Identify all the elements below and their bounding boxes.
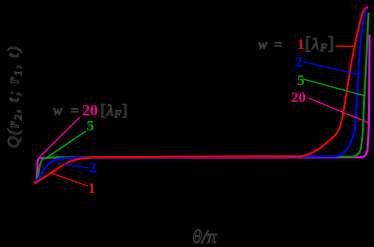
svg-text:[λF]: [λF] [305, 33, 335, 54]
pointer line left w=1 red [52, 173, 88, 186]
svg-text:20: 20 [82, 103, 98, 120]
pointer line right w=1 red [336, 45, 355, 47]
curve w=2 blue [36, 9, 369, 183]
pointer line right w=5 green [303, 79, 364, 96]
svg-text:2: 2 [295, 55, 303, 71]
svg-text:20: 20 [291, 90, 306, 106]
pointer line left w=20 magenta [40, 118, 80, 158]
pointer line right w=2 blue [304, 62, 359, 75]
svg-text:2: 2 [89, 161, 97, 177]
svg-text:1: 1 [88, 181, 96, 197]
svg-text:5: 5 [87, 119, 95, 135]
svg-text:1: 1 [297, 37, 305, 53]
svg-text:θ/π: θ/π [193, 227, 218, 247]
curve w=20 magenta [35, 35, 370, 183]
svg-text:w =: w = [258, 38, 284, 53]
pointer line right w=20 magenta [309, 98, 370, 123]
curve w=5 green [36, 13, 369, 183]
svg-text:Q(r2, t; r1, t): Q(r2, t; r1, t) [6, 45, 25, 148]
pointer line left w=5 green [48, 131, 87, 157]
svg-text:5: 5 [297, 73, 305, 89]
curve w=1 red [34, 7, 368, 183]
svg-text:w =: w = [53, 104, 81, 119]
pointer line left w=2 blue [58, 163, 89, 168]
